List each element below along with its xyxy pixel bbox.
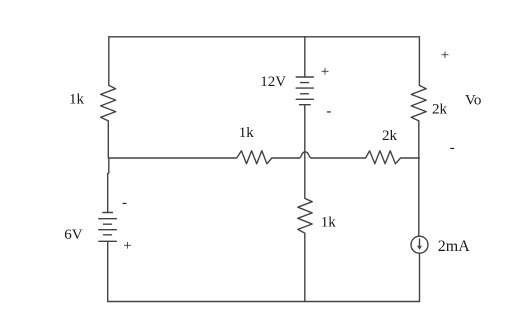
svg-text:2mA: 2mA xyxy=(438,238,470,255)
svg-text:+: + xyxy=(321,64,329,80)
svg-text:12V: 12V xyxy=(260,74,286,90)
svg-text:2k: 2k xyxy=(382,128,398,144)
svg-text:+: + xyxy=(123,238,131,254)
svg-text:-: - xyxy=(122,195,127,211)
svg-text:6V: 6V xyxy=(64,227,83,243)
svg-text:1k: 1k xyxy=(239,125,255,141)
svg-text:1k: 1k xyxy=(69,92,85,108)
svg-text:Vo: Vo xyxy=(465,93,481,109)
svg-text:2k: 2k xyxy=(432,101,448,117)
svg-text:-: - xyxy=(326,104,331,120)
svg-text:1k: 1k xyxy=(321,215,337,231)
svg-text:+: + xyxy=(441,48,449,64)
svg-text:-: - xyxy=(450,140,455,156)
